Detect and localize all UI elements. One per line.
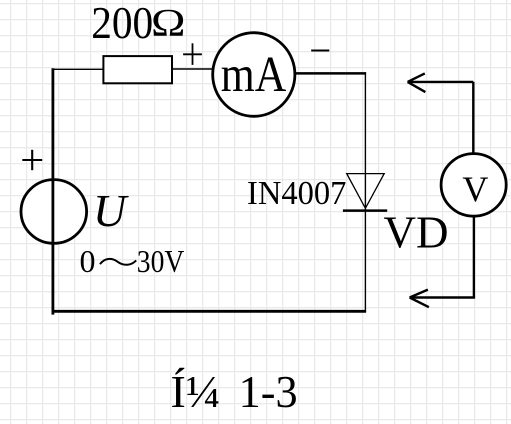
ammeter mA	[213, 33, 295, 117]
svg-text:VD: VD	[384, 207, 449, 258]
svg-text:V: V	[462, 169, 488, 209]
wire voltmeter bottom vertical	[473, 216, 475, 298]
plus sign at ammeter	[183, 43, 202, 65]
resistor R 200 ohm body	[103, 56, 172, 83]
wire left vertical	[52, 68, 55, 314]
wire resistor to ammeter	[173, 68, 213, 70]
svg-text:U: U	[93, 185, 129, 236]
svg-text:IN4007: IN4007	[247, 175, 346, 212]
label 200Ω	[91, 0, 185, 48]
voltmeter lead arrow top	[408, 73, 474, 92]
diode VD (IN4007)	[343, 174, 387, 211]
voltage source U	[21, 180, 87, 244]
minus sign at ammeter	[311, 50, 329, 52]
label 0~30V	[80, 243, 185, 279]
wire right vertical	[364, 72, 366, 312]
voltmeter V	[441, 154, 506, 217]
wire bottom horizontal	[52, 310, 367, 313]
wire voltmeter top vertical	[472, 82, 474, 153]
svg-text:Í¼: Í¼	[171, 366, 221, 417]
wire ammeter to top-right corner	[295, 72, 367, 75]
svg-text:0: 0	[80, 243, 96, 279]
svg-text:1-3: 1-3	[239, 366, 298, 417]
voltmeter lead arrow bottom	[410, 290, 476, 308]
svg-text:Ω: Ω	[151, 0, 186, 44]
svg-text:mA: mA	[221, 47, 287, 103]
svg-text:30V: 30V	[137, 243, 185, 279]
wire top-left horizontal	[52, 68, 104, 70]
plus sign at source	[22, 150, 42, 170]
svg-text:200: 200	[91, 0, 153, 48]
caption Í¼ 1-3 (mojibake of 图 1-3)	[171, 366, 298, 417]
